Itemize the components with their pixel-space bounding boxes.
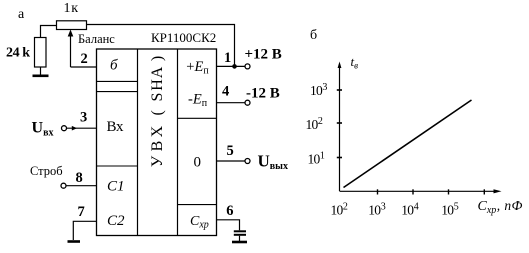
svg-text:а: а — [18, 7, 25, 22]
svg-text:2: 2 — [81, 51, 88, 67]
left column divider 1 — [97, 80, 138, 82]
x tick 10^3 — [377, 189, 379, 194]
svg-text:С2: С2 — [107, 213, 125, 229]
chip U1 KR1100SK2 outer box — [97, 49, 217, 236]
potentiometer wiper arrow — [70, 33, 72, 67]
wire arrow into pin 3 — [72, 126, 77, 131]
svg-text:3: 3 — [80, 110, 87, 126]
svg-text:С1: С1 — [107, 179, 125, 195]
svg-text:6: 6 — [226, 203, 233, 219]
wire pot right to +12V node — [87, 25, 235, 67]
svg-text:1к: 1к — [64, 1, 79, 16]
svg-text:H: H — [149, 79, 166, 91]
svg-text:В: В — [149, 141, 166, 152]
resistor R1 24k body — [35, 38, 47, 68]
svg-text:(: ( — [149, 110, 166, 115]
ground below pin 7 — [68, 240, 81, 243]
right column divider 2 — [178, 204, 217, 206]
svg-text:КР1100СК2: КР1100СК2 — [151, 30, 216, 45]
svg-text:A: A — [149, 66, 166, 78]
left column divider 2 — [97, 91, 138, 93]
chip internal column line 2 — [177, 49, 179, 236]
svg-text:): ) — [149, 56, 166, 61]
terminal circle +12V — [245, 64, 250, 69]
pin 3 wire — [67, 127, 97, 129]
input Uvx terminal circle — [62, 126, 67, 131]
x tick 10^4 — [412, 189, 414, 194]
svg-text:б: б — [310, 28, 317, 43]
svg-text:б: б — [110, 58, 118, 74]
terminal circle -12V — [245, 100, 250, 105]
pin 1 wire — [217, 65, 245, 67]
svg-text:Х: Х — [149, 125, 166, 137]
junction dot +12V node — [232, 64, 237, 69]
wire pot left to 24k resistor — [41, 26, 57, 38]
pin 8 wire — [66, 185, 96, 187]
svg-text:Строб: Строб — [30, 164, 63, 178]
svg-text:7: 7 — [78, 204, 85, 220]
svg-text:8: 8 — [76, 170, 83, 186]
svg-text:+12 В: +12 В — [245, 47, 282, 63]
pin 5 wire — [217, 160, 245, 162]
input Strob terminal circle — [61, 183, 66, 188]
wire wiper to pin 2 — [71, 66, 97, 68]
svg-text:-12 В: -12 В — [246, 86, 280, 102]
svg-text:У: У — [149, 155, 166, 167]
graph x-axis — [340, 190, 497, 192]
svg-text:4: 4 — [222, 84, 229, 100]
svg-text:Баланс: Баланс — [78, 32, 115, 46]
svg-text:0: 0 — [194, 155, 202, 171]
svg-text:1: 1 — [224, 50, 231, 66]
y tick 10^1 — [337, 157, 342, 159]
pin 7 wire — [73, 221, 96, 240]
chip internal column line 1 — [137, 49, 139, 236]
y tick 10^3 — [337, 89, 342, 91]
ground below 24k — [40, 67, 42, 75]
terminal circle Uvyh — [245, 159, 250, 164]
svg-text:24 k: 24 k — [6, 46, 30, 61]
y tick 10^2 — [337, 122, 342, 124]
pin 6 wire — [217, 220, 240, 231]
graph curve line — [344, 100, 472, 188]
x tick 10^6 — [483, 189, 485, 194]
left column divider 3 — [97, 165, 138, 167]
ground below capacitor — [232, 241, 247, 244]
x tick 10^5 — [448, 189, 450, 194]
capacitor C_storage — [234, 230, 246, 232]
potentiometer R2 body — [57, 21, 87, 30]
svg-text:S: S — [149, 93, 166, 102]
pin 4 wire — [217, 102, 245, 104]
svg-text:Вх: Вх — [107, 119, 125, 135]
graph y-axis — [339, 64, 341, 191]
right column divider 1 — [178, 117, 217, 119]
svg-text:5: 5 — [227, 143, 234, 159]
